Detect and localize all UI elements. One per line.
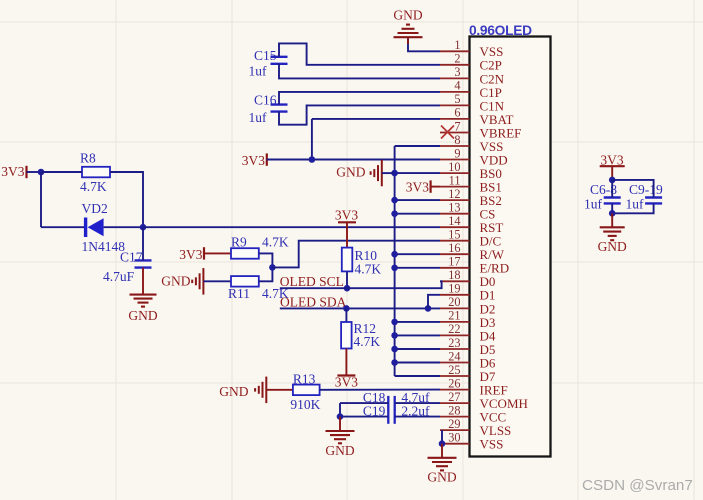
svg-text:GND: GND (128, 308, 157, 323)
svg-text:21: 21 (448, 309, 460, 323)
svg-text:27: 27 (448, 390, 460, 404)
wire C6-8 bottom (611, 203, 613, 213)
pin 27 VCOMH stub (440, 402, 470, 404)
wire divider to pin 15 D/C (272, 241, 440, 268)
wire C16 bottom to pin 5 C1N (279, 105, 440, 124)
power 3V3 tick left (25, 166, 27, 178)
svg-text:4: 4 (454, 79, 460, 93)
svg-text:2: 2 (454, 52, 460, 66)
pin 4 C1P stub (440, 91, 470, 93)
wire C17 to ground (142, 268, 144, 295)
svg-text:R11: R11 (228, 286, 250, 301)
svg-text:20: 20 (448, 295, 460, 309)
wire bus to pin 17 E/RD (395, 267, 440, 269)
capacitor C19 (388, 409, 394, 423)
ground stem red part (407, 37, 409, 44)
wire OLED_SDA to pin 20 D2 (280, 307, 440, 309)
svg-text:26: 26 (448, 376, 460, 390)
svg-text:14: 14 (448, 214, 460, 228)
svg-text:3: 3 (454, 65, 460, 79)
svg-text:C6-8: C6-8 (590, 182, 617, 197)
wire ground to R11 (203, 280, 231, 282)
junction bus pin 17 (391, 265, 398, 272)
svg-text:4.7uF: 4.7uF (103, 269, 135, 284)
wire C18 right to pin 27 VCOMH (395, 402, 440, 404)
pin 1 VSS stub (440, 50, 470, 52)
wire 3V3 to R10 top (346, 222, 348, 247)
svg-text:1uf: 1uf (249, 110, 268, 125)
svg-text:1uf: 1uf (626, 197, 645, 212)
wire bus to pin 24 D6 (395, 362, 440, 364)
svg-text:19: 19 (448, 282, 460, 296)
wire C18 left (340, 402, 388, 404)
pin 8 VSS stub (440, 145, 470, 147)
wire bus to pin 8 VSS (395, 145, 440, 147)
svg-text:22: 22 (448, 322, 460, 336)
wire bus to pin 10 BS0 (395, 172, 440, 174)
svg-text:OLED SDA: OLED SDA (280, 294, 347, 309)
pin 25 D7 stub (440, 375, 470, 377)
svg-text:5: 5 (454, 92, 460, 106)
svg-text:29: 29 (448, 417, 460, 431)
pin 21 D3 stub (440, 321, 470, 323)
diode VD2 1N4148 (86, 218, 104, 238)
ground (C17) (130, 295, 157, 307)
wire GND to pin 1 (408, 37, 440, 51)
power 3V3 tick (266, 153, 268, 165)
junction bus pin 16 (391, 251, 398, 258)
svg-text:1uf: 1uf (584, 197, 603, 212)
svg-text:30: 30 (448, 431, 460, 445)
wire 3V3 down (611, 166, 613, 180)
resistor R13 (293, 385, 320, 396)
wire C19 left (340, 416, 388, 418)
svg-text:23: 23 (448, 336, 460, 350)
power 3V3 tick R9 (203, 247, 205, 259)
pin 28 VCC stub (440, 416, 470, 418)
wire to R8 left (41, 171, 82, 173)
pin 7 VBREF stub (440, 132, 470, 134)
pin 16 R/W stub (440, 253, 470, 255)
wire down to VD2 anode (40, 172, 42, 227)
svg-text:1uf: 1uf (249, 64, 268, 79)
power 3V3 bar R12 (337, 374, 355, 376)
junction C6-8/C9-19/GND (609, 210, 616, 217)
junction bus pin 22 (391, 332, 398, 339)
pin 3 C2N stub (440, 77, 470, 79)
capacitor C15 (271, 57, 288, 64)
pin 22 D4 stub (440, 334, 470, 336)
junction 3V3/VBAT/VDD (309, 156, 316, 163)
wire to pin 6 VBAT (312, 118, 440, 120)
op IC U1 0.96OLED body (470, 37, 551, 457)
svg-text:4.7K: 4.7K (355, 262, 382, 277)
svg-text:8: 8 (454, 133, 460, 147)
pin 17 E/RD stub (440, 267, 470, 269)
junction bus pin 24 (391, 359, 398, 366)
wire RST node to pin 14 RST (143, 226, 440, 228)
junction bus pin 10 (391, 170, 398, 177)
wire SDA to R12 top (345, 308, 347, 322)
svg-text:1N4148: 1N4148 (82, 239, 126, 254)
power 3V3 bar right (600, 165, 625, 167)
wire OLED_SCL to pin 18 D0 (280, 281, 442, 288)
svg-text:0.96OLED: 0.96OLED (469, 23, 532, 38)
svg-text:GND: GND (219, 384, 248, 399)
ground (right caps) (600, 227, 625, 240)
svg-text:3V3: 3V3 (1, 164, 24, 179)
svg-text:CSDN @Svran7: CSDN @Svran7 (582, 477, 693, 494)
svg-text:4.7K: 4.7K (354, 334, 381, 349)
wire C16 top to pin 4 C1P (279, 92, 440, 105)
junction SDA branch (425, 305, 432, 312)
pin 29 VLSS stub (440, 429, 470, 431)
wire C19 right to pin 28 VCC (395, 416, 440, 418)
resistor R10 (342, 248, 353, 272)
wire ground to bus (382, 172, 395, 174)
wire C18/C19 join (339, 403, 341, 417)
svg-text:GND: GND (161, 274, 190, 289)
wire 3V3 to node (27, 171, 42, 173)
junction bus pin 21 (391, 319, 398, 326)
wire bus to pin 23 D5 (395, 348, 440, 350)
svg-text:R9: R9 (231, 234, 247, 249)
svg-text:GND: GND (336, 165, 365, 180)
wire bus to pin 16 R/W (395, 253, 440, 255)
wire VD2 anode to RST node (104, 226, 143, 228)
svg-text:18: 18 (448, 268, 460, 282)
pin 24 D6 stub (440, 362, 470, 364)
wire R10 bottom to SCL (346, 271, 348, 288)
svg-text:12: 12 (448, 187, 460, 201)
junction 3V3/C6-8 (609, 177, 616, 184)
wire 3V3 to R9 (204, 252, 231, 254)
junction R12/SDA (343, 305, 350, 312)
wire up to pin 6 VBAT (311, 119, 313, 160)
junction R10/SCL (344, 285, 351, 292)
svg-text:VD2: VD2 (82, 201, 108, 216)
no-connect X on pin 7 VBREF (441, 126, 454, 139)
wire to C9-19 top (612, 180, 653, 198)
wire C9-19 bottom loop (612, 203, 653, 213)
junction bus pin 13 (391, 210, 398, 217)
wire R12 bottom to 3V3 (345, 349, 347, 376)
resistor R9 (231, 248, 259, 259)
junction bus pin 12 (391, 197, 398, 204)
svg-text:4.7K: 4.7K (262, 234, 289, 249)
pin 9 VDD stub (440, 159, 470, 161)
pin 12 BS2 stub (440, 199, 470, 201)
pin 10 BS0 stub (440, 172, 470, 174)
wire bus to pin 25 D7 (395, 375, 440, 377)
pin 2 C2P stub (440, 64, 470, 66)
svg-text:GND: GND (325, 443, 354, 458)
ground (pin 30) (428, 458, 457, 471)
svg-text:10: 10 (448, 160, 460, 174)
svg-text:24: 24 (448, 349, 460, 363)
svg-text:3V3: 3V3 (335, 207, 358, 222)
svg-text:1: 1 (454, 38, 460, 52)
wire RST node down to C17 (142, 227, 144, 260)
svg-text:6: 6 (454, 106, 460, 120)
svg-text:3V3: 3V3 (242, 153, 265, 168)
wire to right ground (611, 213, 613, 227)
wire 3V3 to pin 9 VDD (267, 159, 440, 161)
pin 6 VBAT stub (440, 118, 470, 120)
wire bus to pin 22 D4 (395, 334, 440, 336)
pin 5 C1N stub (440, 104, 470, 106)
wire bus to pin 21 D3 (395, 321, 440, 323)
svg-text:13: 13 (448, 201, 460, 215)
wire 3V3 to pin 11 BS1 (431, 186, 440, 188)
wire GND bus vertical (394, 146, 396, 376)
svg-text:910K: 910K (290, 397, 320, 412)
capacitor C16 (271, 105, 288, 112)
wire bus to pin 13 CS (395, 213, 440, 215)
svg-text:VSS: VSS (480, 437, 504, 452)
svg-text:7: 7 (454, 119, 460, 133)
svg-text:3V3: 3V3 (406, 179, 429, 194)
pin 23 D5 stub (440, 348, 470, 350)
resistor R12 (341, 322, 352, 349)
resistor R8 (82, 167, 110, 178)
pin 11 BS1 stub (440, 186, 470, 188)
svg-text:28: 28 (448, 403, 460, 417)
wire to C6-8 top (611, 180, 613, 198)
svg-text:4.7K: 4.7K (80, 179, 107, 194)
pin 15 D/C stub (440, 240, 470, 242)
capacitor C18 (388, 396, 394, 410)
capacitor C9-19 (645, 198, 662, 204)
pin 14 RST stub (440, 226, 470, 228)
wire to bottom ground (441, 444, 443, 458)
wire C15 bottom to pin 3 C2N (279, 64, 440, 79)
svg-text:GND: GND (393, 8, 422, 23)
wire pin 29 VLSS to pin 30 (441, 430, 443, 444)
junction R9/R11 (269, 264, 276, 271)
capacitor C6-8 (604, 198, 621, 204)
wire to ground (339, 417, 341, 431)
power 3V3 tick pin11 (430, 180, 432, 192)
svg-text:3V3: 3V3 (335, 375, 358, 390)
svg-text:R8: R8 (80, 151, 96, 166)
svg-text:11: 11 (449, 173, 461, 187)
capacitor C17 (135, 260, 152, 267)
junction 3V3/R8/VD2 (38, 169, 45, 176)
junction RST node (140, 224, 147, 231)
junction C18/C19/GND (337, 413, 344, 420)
wire bus to pin 12 BS2 (395, 199, 440, 201)
resistor R11 (231, 276, 259, 287)
junction bus pin 23 (391, 346, 398, 353)
pin 19 D1 stub (440, 294, 470, 296)
pin 26 IREF stub (440, 389, 470, 391)
svg-text:GND: GND (427, 470, 456, 485)
power 3V3 bar R10 (338, 221, 356, 223)
svg-text:3V3: 3V3 (179, 247, 202, 262)
pin 20 D2 stub (440, 307, 470, 309)
svg-text:C9-19: C9-19 (629, 182, 663, 197)
pin 30 VSS stub (440, 443, 470, 445)
pin 18 D0 stub (440, 280, 470, 282)
wire R9/R11 join (259, 253, 273, 281)
wire R13 to pin 26 IREF (320, 389, 440, 391)
pin 13 CS stub (440, 213, 470, 215)
wire SDA branch to pin 19 D1 (428, 295, 440, 309)
svg-text:GND: GND (598, 239, 627, 254)
wire ground to R13 (266, 389, 293, 391)
svg-text:OLED SCL: OLED SCL (280, 274, 344, 289)
ground (top, to pin 1 VSS) (394, 25, 423, 38)
svg-text:17: 17 (448, 255, 460, 269)
svg-text:9: 9 (454, 146, 460, 160)
svg-text:25: 25 (448, 363, 460, 377)
wire R8 right down to RST node (110, 172, 143, 227)
ground (C18/C19) (326, 431, 355, 443)
svg-text:C17: C17 (120, 249, 143, 264)
junction pin30/GND (439, 440, 446, 447)
wire to VD2 cathode (41, 226, 84, 228)
svg-text:16: 16 (448, 241, 460, 255)
wire C15 top to pin 2 C2P (279, 43, 440, 64)
svg-text:15: 15 (448, 228, 460, 242)
